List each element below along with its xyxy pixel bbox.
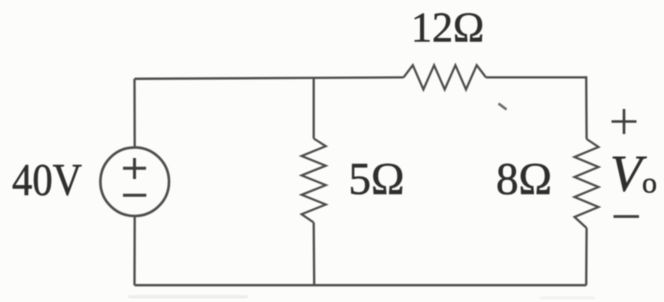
wire left branch lower (source V1 to bottom rail) bbox=[133, 217, 135, 286]
wire left branch upper (top rail to source V1) bbox=[133, 79, 135, 147]
output polarity minus mark (Vo -) bbox=[614, 215, 640, 218]
resistor R3 8-ohm (vertical zigzag) bbox=[575, 139, 599, 228]
svg-text:12Ω: 12Ω bbox=[411, 6, 484, 52]
voltage source V1 plus polarity mark bbox=[123, 158, 146, 179]
stray scan mark bbox=[499, 104, 507, 110]
wire top-right segment (R1 to node B) bbox=[486, 76, 586, 78]
svg-text:8Ω: 8Ω bbox=[496, 154, 552, 204]
svg-text:5Ω: 5Ω bbox=[349, 154, 405, 204]
resistor R2 5-ohm (vertical zigzag) bbox=[302, 139, 326, 223]
svg-text:40V: 40V bbox=[12, 155, 82, 205]
wire bottom rail bbox=[135, 284, 587, 286]
scan smudge bottom left bbox=[128, 295, 248, 299]
wire middle branch upper (node A junction to R2) bbox=[313, 78, 315, 139]
scan smudge bottom right bbox=[540, 297, 595, 300]
wire top-left segment (node A to R1) bbox=[135, 77, 404, 78]
wire right branch upper (node B to R3) bbox=[585, 76, 588, 139]
resistor R1 12-ohm (horizontal zigzag) bbox=[404, 65, 487, 89]
voltage source V1 minus polarity mark bbox=[123, 194, 146, 197]
voltage source V1 40V (circle symbol) bbox=[100, 147, 169, 216]
output polarity plus mark (Vo +) bbox=[612, 109, 637, 134]
svg-text:o: o bbox=[642, 167, 657, 200]
wire middle branch lower (R2 to bottom rail) bbox=[313, 223, 316, 286]
wire right branch lower (R3 to bottom node) bbox=[585, 228, 588, 285]
